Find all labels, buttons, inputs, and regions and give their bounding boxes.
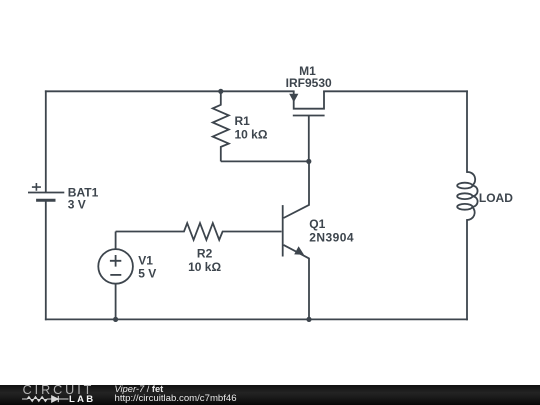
node gate / R1 / collector <box>306 159 311 164</box>
svg-text:10 kΩ: 10 kΩ <box>235 128 268 142</box>
mosfet arrow (source, P-channel) <box>289 94 298 103</box>
source lead and channel U <box>294 91 324 108</box>
wire top rail left segment <box>46 90 294 92</box>
gate bar <box>293 115 325 117</box>
wire right rail upper (to LOAD) <box>466 91 468 172</box>
svg-text:10 kΩ: 10 kΩ <box>188 260 221 274</box>
svg-text:5 V: 5 V <box>138 267 156 281</box>
wire bottom rail <box>46 318 467 320</box>
node V1 / bottom rail <box>113 317 118 322</box>
wire V1 bottom <box>115 284 117 320</box>
svg-text:V1: V1 <box>138 253 153 267</box>
svg-text:R2: R2 <box>197 247 213 261</box>
wire left rail upper (to BAT1) <box>45 91 47 192</box>
svg-text:R1: R1 <box>235 114 251 128</box>
battery BAT1 <box>28 183 64 200</box>
resistor R1 <box>213 91 309 161</box>
plus sign <box>110 255 121 267</box>
source V1 <box>98 232 133 320</box>
gate wire down to node <box>308 116 310 162</box>
wire left rail lower (BAT1 to bottom) <box>45 201 47 320</box>
base bar <box>282 205 284 256</box>
logo resistor+diode symbol <box>22 394 69 404</box>
svg-text:LOAD: LOAD <box>479 191 513 205</box>
emitter arrow <box>294 246 304 255</box>
transistor Q1 <box>283 161 309 319</box>
inductor LOAD <box>457 172 477 220</box>
wire R1 bottom to gate node <box>221 160 309 162</box>
svg-text:IRF9530: IRF9530 <box>286 76 332 90</box>
minus sign <box>110 274 121 276</box>
svg-text:3 V: 3 V <box>68 198 86 212</box>
resistor R2 <box>116 223 282 240</box>
wire V1 top <box>115 232 117 250</box>
CircuitLab logo text CIRCUIT <box>23 383 95 397</box>
wire right rail lower (LOAD to bottom) <box>466 220 468 319</box>
wire top rail right segment <box>324 90 467 92</box>
footer bar <box>0 385 540 405</box>
title Viper-7 / fet <box>115 385 164 394</box>
node top rail / R1 <box>218 89 223 94</box>
collector diagonal <box>284 161 310 218</box>
CircuitLab logo LAB <box>69 394 95 405</box>
node emitter / bottom rail <box>306 317 311 322</box>
svg-text:Q1: Q1 <box>309 217 325 231</box>
emitter diagonal <box>284 245 310 320</box>
mosfet M1 <box>293 91 325 161</box>
svg-text:2N3904: 2N3904 <box>309 231 354 245</box>
